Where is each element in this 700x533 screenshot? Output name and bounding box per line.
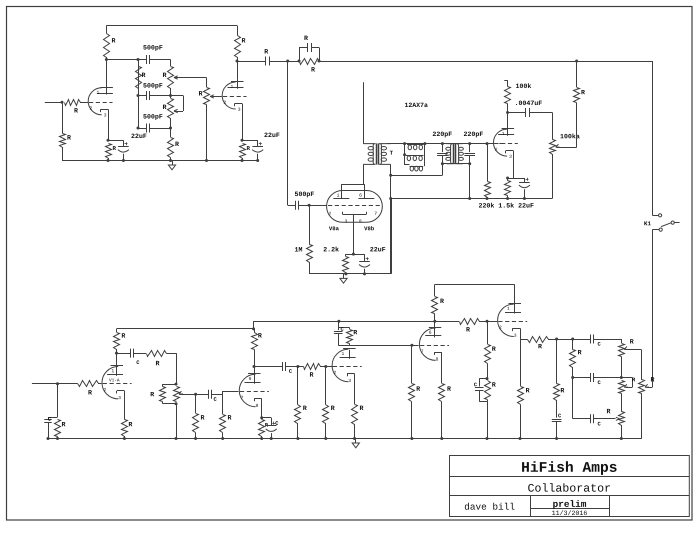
wire to K1 and R (319, 61, 652, 63)
transformer2 primary winding (447, 144, 453, 164)
node cap3 right (169, 127, 172, 130)
stage3 plate load RC (338, 321, 340, 327)
stage2 cathode network (261, 399, 263, 418)
title block (450, 456, 690, 517)
capacitor 220pF (2) (468, 142, 471, 145)
V8 cathode lead (353, 214, 355, 254)
RC to ground tone (556, 339, 558, 384)
capacitor 500pF (1) (146, 55, 148, 64)
resistor R output series (528, 337, 549, 343)
resistor R right chain bottom (168, 138, 174, 158)
potentiometer R presence (3) (204, 88, 210, 105)
V8 plate leads + bridge (341, 184, 343, 198)
resistor R interstage h (304, 364, 321, 370)
node supply R tap (575, 60, 578, 63)
resistor R divider down 2 (325, 367, 327, 405)
node stage3 B+ tap (337, 320, 340, 323)
potentiometer tone 3 (619, 412, 625, 426)
volume pot network stage1 (163, 384, 177, 386)
triode stage4 lower (419, 328, 435, 360)
V8 plate bars (333, 198, 349, 200)
ground lower rail (355, 439, 357, 444)
potentiometer tone 2 (619, 381, 625, 394)
potentiometer tone 1 (621, 339, 623, 343)
resistor R V-1 cathode (106, 144, 112, 159)
capacitor 22uF V9a cathode (524, 178, 526, 182)
input shunt network (57, 384, 59, 417)
node cap chain left top (137, 58, 140, 61)
wire t2 bottom (442, 163, 469, 165)
capacitor 500pF V8a input (288, 205, 295, 207)
wire top rail upper-left (106, 25, 237, 27)
triode stage5 lower (498, 304, 514, 336)
wire input lower amp (32, 383, 58, 385)
node pot2 top (169, 94, 172, 97)
node RC out (318, 60, 321, 63)
stage3 cathode resistor (354, 374, 356, 405)
V1-A cathode resistor (124, 391, 126, 420)
node plate V-1 (105, 58, 108, 61)
resistor R stage4 plate to stage5 grid (435, 321, 459, 323)
resistor R V-2 cathode (240, 144, 246, 159)
wire stage2 grid (223, 392, 239, 395)
coupling cap stage1 (117, 353, 131, 355)
potentiometer 100ka (550, 140, 556, 155)
node tone mid (571, 376, 574, 379)
transformer2 secondary winding (456, 144, 462, 164)
wire K1 to tone pot (652, 230, 654, 388)
wire lower B+ rail mid (254, 321, 435, 323)
node stage3 divider 1 (296, 365, 299, 368)
stage5 cathode follower output (520, 328, 522, 339)
twin triode V8 envelope (327, 191, 383, 223)
triode stage3 lower (332, 349, 348, 381)
wire plate V-1 to node (106, 60, 108, 86)
wire left chain (138, 60, 140, 129)
node tone input 1 (555, 338, 558, 341)
wire to V grid (80, 102, 88, 104)
triode stage2 lower (239, 374, 255, 406)
node plate V1-A (115, 352, 118, 355)
capacitor C tone 1 (590, 335, 592, 344)
node V8 cathode (352, 253, 355, 256)
wire V8 ground rail (309, 273, 391, 275)
resistor R stage4 B+ (434, 284, 436, 296)
node tone input 2 (571, 338, 574, 341)
wire V8a feed vertical (287, 61, 289, 205)
wire interstage top (387, 143, 492, 145)
node stage5 grid (486, 320, 489, 323)
node V8a grid (308, 204, 311, 207)
resistor 1M (309, 205, 311, 244)
node choke right (423, 142, 426, 145)
potentiometer R right chain (2) (168, 99, 174, 119)
node stage2 grid leak (194, 393, 197, 396)
coupling capacitor upper (237, 61, 266, 63)
wiper wire to stage2 (180, 394, 196, 396)
resistor 2.2k (345, 254, 347, 256)
coupling cap stage2 (196, 394, 209, 396)
node input (61, 101, 64, 104)
node t2 bottom left (441, 162, 444, 165)
switch K1 (652, 215, 658, 217)
V8 pin labels (337, 194, 339, 197)
wire node to cap chain (106, 59, 146, 61)
resistor 220k (487, 144, 489, 182)
V8 cathode bar (343, 214, 367, 216)
ground upper rail (172, 161, 174, 166)
capacitor 220pF (1) (442, 144, 444, 153)
triode V-2 upper-left (222, 82, 236, 109)
node tone 2 (620, 376, 623, 379)
capacitor C tone 2 (573, 377, 591, 379)
labels 220k 1.5k 22uF (479, 203, 534, 208)
node stage4 grid leak (410, 344, 413, 347)
resistor 1.5k V9a cathode (507, 178, 509, 181)
node to V8a feed (286, 60, 289, 63)
transformer T core (376, 143, 378, 164)
stage4 cathode resistor (441, 352, 443, 383)
wire riser transformer primary (363, 82, 365, 143)
triode V1-A (102, 367, 118, 399)
capacitor .0047uF (508, 112, 526, 114)
node V9a cathode (506, 177, 509, 180)
node input lower (56, 382, 59, 385)
wire lower ground rail (47, 438, 642, 440)
resistor R stage2 grid 2 (222, 394, 224, 414)
resistor R plate V1-A (116, 329, 118, 332)
triode V-1 upper-left (88, 88, 102, 115)
RC parallel network upper (288, 61, 299, 63)
V8 grid dashed (328, 205, 381, 207)
wire B+ rail lower right (435, 284, 515, 286)
node plate V9a (506, 111, 509, 114)
resistor R left chain (136, 67, 142, 89)
transformer T secondary winding (379, 144, 391, 165)
wire t2 bottom return (391, 175, 443, 177)
resistor R grid stopper upper input (65, 100, 81, 106)
resistor R input lower (58, 383, 78, 385)
V9a cathode lead (513, 151, 515, 178)
capacitor bypass V-1 cathode (123, 140, 125, 146)
resistor R plate load V-1 (104, 34, 110, 58)
node stage4 plate (433, 320, 436, 323)
capacitor 22uF V8 cathode (364, 254, 366, 261)
node plate stage2 (253, 365, 256, 368)
node plate V-2 (236, 60, 239, 63)
node choke left (403, 142, 406, 145)
resistor R stage2 grid leak (195, 394, 197, 413)
interstage ground rail (391, 198, 553, 200)
ground V8 rail (343, 274, 345, 279)
potentiometer R right chain (1) (168, 67, 174, 89)
capacitor 22uF V-2 cathode (257, 140, 259, 146)
choke coils (405, 144, 410, 165)
node grid V9a / 220k (486, 142, 489, 145)
capacitor 500pF (3) (138, 128, 146, 130)
resistor R divider down 1 (297, 367, 299, 405)
node stage3 divider 2 (324, 365, 327, 368)
wire input upper amp (45, 102, 62, 104)
node V-2 cathode (241, 139, 244, 142)
triode V9a (494, 129, 507, 156)
wire stage3 plate to stage4 grid (349, 345, 419, 347)
V-2 cathode lead (242, 104, 244, 141)
wire upper ground rail (62, 160, 258, 162)
resistor R tone ladder (570, 350, 576, 368)
wiper wire pot1 to pot3 (173, 77, 175, 79)
wire rail up to interstage rail (391, 199, 393, 274)
V-1 cathode lead (108, 109, 110, 140)
resistor R stage4 grid leak (411, 345, 413, 383)
transformer T primary winding (363, 144, 375, 165)
resistor R plate stage2 (254, 329, 256, 333)
resistor 100k (505, 87, 511, 104)
resistor R supply to pot (576, 61, 578, 87)
wire plate V-2 (237, 61, 239, 80)
wire to K1 (652, 61, 654, 215)
node V-1 cathode (107, 139, 110, 142)
resistor R coupling stage1 (147, 351, 167, 357)
grid wire dashed V9a (493, 143, 505, 145)
wire rail step (253, 321, 255, 329)
potentiometer tone 4 (639, 380, 645, 394)
wire lower B+ rail left (117, 328, 254, 330)
label 12AX7a (405, 103, 428, 107)
wiper wire pot3 to V-2 grid (209, 96, 211, 98)
transformer2 core (453, 144, 455, 164)
wiper wire pot2 loop (173, 111, 175, 113)
resistor R stage5 cathode load (520, 339, 522, 386)
node cap2 left (137, 94, 140, 97)
coupling cap stage3 (254, 366, 282, 368)
capacitor 500pF (2) (138, 95, 146, 97)
resistor R upper input shunt (62, 102, 64, 133)
label 22uF left chain (131, 134, 146, 138)
node cap 220pF(1) top (441, 142, 444, 145)
capacitor C tone 3 (572, 378, 574, 419)
resistor R plate load V-2 (235, 36, 241, 58)
stage5 grid leak chain (487, 321, 489, 344)
labels V8a V8b (329, 226, 339, 230)
